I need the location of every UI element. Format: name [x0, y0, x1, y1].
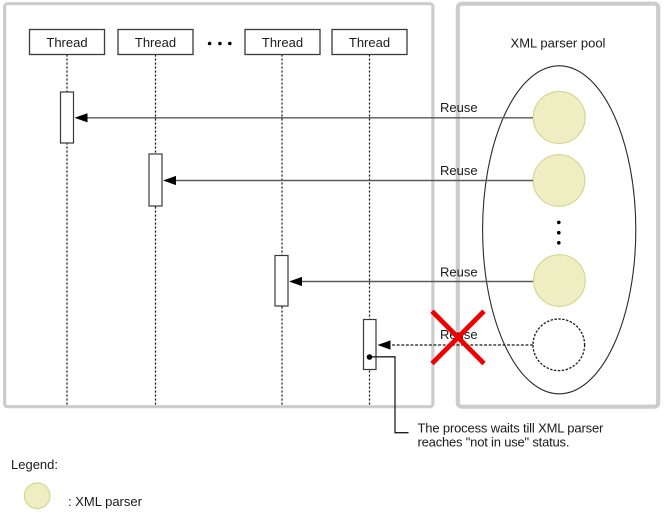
reuse arrow 3 head [289, 277, 302, 286]
XML parser circle 2 [533, 155, 585, 207]
lifeline thread 1 [66, 55, 68, 406]
reuse arrow 1 wire [86, 117, 533, 119]
callout wire [372, 357, 409, 433]
svg-text:Thread: Thread [46, 35, 87, 50]
thread box 3 [245, 30, 320, 55]
svg-text:: XML parser: : XML parser [68, 494, 143, 509]
thread box 1 [30, 30, 105, 55]
svg-text:The process waits till XML par: The process waits till XML parser [418, 421, 605, 436]
parser pool ellipse [483, 66, 636, 394]
activation bar thread 4 [364, 320, 377, 370]
svg-text:XML parser pool: XML parser pool [511, 35, 606, 50]
legend parser circle [24, 483, 50, 509]
svg-text:Reuse: Reuse [440, 100, 478, 115]
thread box 4 [332, 30, 407, 55]
svg-text:Thread: Thread [135, 35, 176, 50]
reuse arrow 4 dashed wire [388, 344, 533, 346]
reuse arrow 3 wire [300, 281, 533, 283]
rejected cross [432, 311, 484, 363]
activation bar thread 2 [149, 154, 162, 206]
vertical ellipsis in pool [557, 221, 561, 245]
activation bar thread 3 [275, 256, 288, 307]
thread group frame [5, 4, 433, 407]
XML parser pool frame [458, 4, 658, 407]
reuse arrow 1 head [75, 113, 88, 122]
XML parser circle 3 [534, 255, 586, 307]
reuse arrow 2 head [163, 176, 176, 185]
callout note text [418, 421, 605, 450]
svg-text:Thread: Thread [349, 35, 390, 50]
lifeline thread 3 [281, 55, 283, 406]
svg-text:Reuse: Reuse [440, 265, 478, 280]
reuse arrow 4 head [378, 340, 391, 349]
svg-text:Reuse: Reuse [440, 163, 478, 178]
ellipsis between thread boxes [208, 42, 232, 46]
wait node dot on activation bar 4 [367, 354, 373, 360]
reuse arrow 2 wire [174, 180, 533, 182]
XML parser circle 1 [533, 92, 585, 144]
dashed (in use) parser circle [533, 319, 585, 371]
svg-text:Legend:: Legend: [11, 457, 58, 472]
lifeline thread 4 [369, 55, 371, 406]
svg-text:Thread: Thread [262, 35, 303, 50]
activation bar thread 1 [61, 92, 74, 143]
svg-text:reaches "not in use" status.: reaches "not in use" status. [418, 434, 570, 449]
thread box 2 [118, 30, 193, 55]
lifeline thread 2 [155, 55, 157, 406]
